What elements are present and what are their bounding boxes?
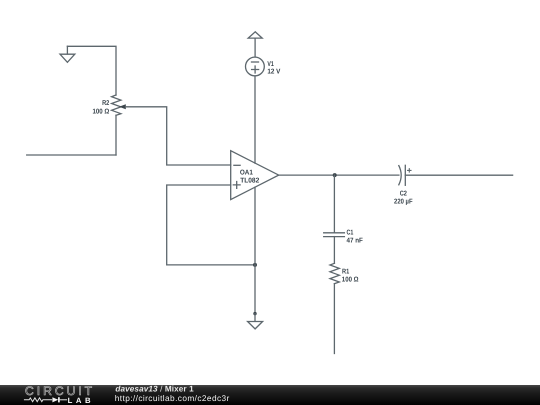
wire R1 bottom open end (333, 284, 335, 354)
ground GND2 node dot (253, 312, 256, 315)
svg-text:C1: C1 (347, 230, 354, 237)
wire C1 to R1 (333, 237, 335, 264)
svg-text:LAB: LAB (68, 395, 95, 404)
svg-text:R1: R1 (342, 269, 349, 276)
svg-text:220 µF: 220 µF (394, 198, 413, 205)
wire op-amp bottom power pin to ground (254, 187, 256, 313)
svg-text:47 nF: 47 nF (347, 238, 364, 245)
power flag V1 triangle (248, 32, 262, 38)
V1 minus sign (252, 61, 259, 63)
potentiometer R2 wiper arrow (119, 104, 126, 109)
svg-text:R2: R2 (102, 100, 109, 107)
svg-text:C2: C2 (400, 191, 407, 198)
capacitor C2 straight plate (404, 165, 406, 185)
resistor R1 zigzag (330, 263, 339, 283)
V1 plus sign (252, 66, 259, 73)
ground GND1 triangle (60, 54, 75, 62)
potentiometer R2 zigzag (112, 95, 121, 115)
ground GND1 stub (66, 46, 68, 54)
capacitor C2 plus sign (408, 169, 411, 172)
svg-text:V1: V1 (267, 61, 273, 68)
wire flag to V1 (254, 38, 256, 57)
wire branch down to C1 (333, 175, 335, 233)
footer bar (0, 385, 540, 405)
logo diode symbol (52, 397, 58, 402)
ground GND2 stub (254, 314, 256, 322)
capacitor C2 curved plate (399, 166, 401, 185)
node junction dot at ground net (253, 263, 257, 267)
wire input left to R2 bottom (27, 154, 116, 156)
ground GND1 top-left: wire to R2 top (67, 46, 116, 95)
op-amp OA1 triangle (231, 151, 279, 200)
wire wiper to op-amp minus input (126, 107, 231, 165)
svg-text:100 Ω: 100 Ω (93, 108, 110, 115)
capacitor C1 bottom plate (324, 236, 345, 238)
node junction dot at output branch (333, 173, 337, 177)
wire op-amp output to C2 (279, 174, 399, 176)
wire V1 to op-amp top power pin (254, 76, 256, 163)
svg-text:OA1: OA1 (240, 170, 253, 177)
ground GND2 triangle (248, 322, 263, 329)
voltage source V1 circle (246, 57, 265, 76)
op-amp minus input sign (234, 164, 240, 166)
wire op-amp plus input to ground node (167, 185, 255, 265)
op-amp plus input sign (233, 182, 240, 189)
capacitor C1 top plate (324, 232, 345, 234)
wire C2 to right output (405, 174, 512, 176)
logo resistor zigzag (24, 397, 52, 401)
svg-text:12 V: 12 V (267, 68, 280, 75)
svg-text:TL082: TL082 (240, 177, 259, 184)
wire R2 bottom lead (115, 115, 117, 155)
svg-text:http://circuitlab.com/c2edc3r: http://circuitlab.com/c2edc3r (115, 392, 230, 402)
svg-text:100 Ω: 100 Ω (342, 276, 359, 283)
